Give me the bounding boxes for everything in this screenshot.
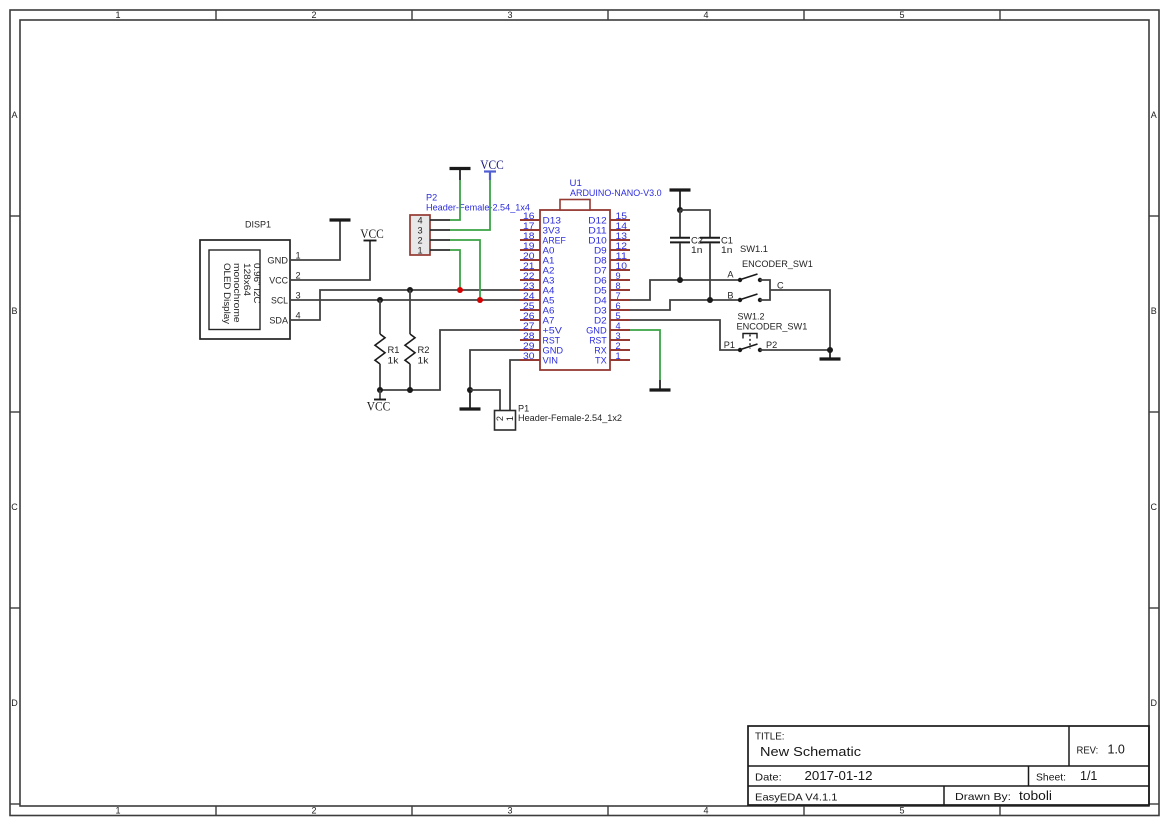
svg-text:A6: A6 bbox=[543, 305, 555, 315]
svg-text:U1: U1 bbox=[570, 178, 582, 188]
svg-text:3: 3 bbox=[616, 331, 621, 341]
svg-text:TX: TX bbox=[595, 355, 607, 365]
U1 labels bbox=[570, 178, 662, 198]
svg-text:GND: GND bbox=[267, 255, 288, 265]
svg-text:22: 22 bbox=[523, 271, 535, 281]
node SDA junction (red) bbox=[457, 287, 463, 293]
svg-text:D4: D4 bbox=[594, 295, 607, 305]
wire U1 GND pin29 bbox=[470, 350, 520, 390]
svg-text:2: 2 bbox=[495, 416, 505, 421]
svg-text:17: 17 bbox=[523, 221, 535, 231]
svg-text:A0: A0 bbox=[543, 245, 555, 255]
svg-text:1: 1 bbox=[115, 806, 120, 816]
svg-text:RST: RST bbox=[543, 335, 561, 345]
svg-text:P2: P2 bbox=[426, 193, 437, 203]
svg-text:Drawn By:: Drawn By: bbox=[955, 791, 1011, 803]
svg-text:13: 13 bbox=[616, 231, 628, 241]
wire U1 GND pin4 to ground (green) bbox=[630, 330, 660, 380]
node label C bbox=[777, 280, 784, 290]
svg-text:RX: RX bbox=[594, 345, 606, 355]
svg-text:1k: 1k bbox=[418, 356, 429, 366]
svg-text:21: 21 bbox=[523, 261, 535, 271]
svg-text:15: 15 bbox=[616, 211, 628, 221]
svg-text:SDA: SDA bbox=[269, 315, 288, 325]
svg-text:New Schematic: New Schematic bbox=[760, 744, 862, 759]
svg-text:C: C bbox=[1151, 502, 1158, 512]
svg-text:4: 4 bbox=[296, 311, 301, 321]
svg-text:ENCODER_SW1: ENCODER_SW1 bbox=[742, 259, 813, 269]
svg-text:29: 29 bbox=[523, 341, 535, 351]
svg-text:D10: D10 bbox=[588, 235, 606, 245]
C1 value labels bbox=[721, 236, 733, 255]
pin label P2 bbox=[766, 340, 777, 350]
IC U1 ARDUINO-NANO-V3.0 bbox=[520, 200, 630, 371]
wire U1 D3 pin6 to encoder B bbox=[630, 300, 739, 310]
svg-text:D: D bbox=[1151, 698, 1158, 708]
svg-text:D6: D6 bbox=[594, 275, 607, 285]
svg-text:1: 1 bbox=[505, 416, 515, 421]
svg-text:TITLE:: TITLE: bbox=[755, 731, 785, 743]
svg-text:20: 20 bbox=[523, 251, 535, 261]
svg-text:AREF: AREF bbox=[543, 235, 567, 245]
node junction R2/VCC bbox=[407, 387, 413, 393]
wire top to C1 bbox=[680, 210, 710, 237]
svg-text:D9: D9 bbox=[594, 245, 607, 255]
capacitor C2 bbox=[670, 210, 690, 280]
ground (near P1) bbox=[460, 390, 481, 409]
svg-text:D3: D3 bbox=[594, 305, 607, 315]
svg-text:D12: D12 bbox=[588, 215, 606, 225]
svg-text:REV:: REV: bbox=[1077, 745, 1099, 757]
node junction C2/C1 top bbox=[677, 207, 683, 213]
svg-text:R2: R2 bbox=[418, 345, 430, 355]
node junction SDA/R2 bbox=[407, 287, 413, 293]
svg-text:2017-01-12: 2017-01-12 bbox=[805, 769, 873, 783]
SW1.2 labels bbox=[737, 312, 808, 332]
svg-text:C: C bbox=[11, 502, 18, 512]
svg-text:6: 6 bbox=[616, 301, 621, 311]
R2 value labels bbox=[418, 345, 430, 366]
svg-text:EasyEDA V4.1.1: EasyEDA V4.1.1 bbox=[755, 792, 838, 804]
wire encoder common C bbox=[760, 280, 830, 350]
R1 value labels bbox=[388, 345, 400, 366]
resistor R2 bbox=[405, 290, 415, 390]
svg-text:ENCODER_SW1: ENCODER_SW1 bbox=[737, 322, 808, 332]
title block bbox=[748, 726, 1149, 805]
svg-text:2: 2 bbox=[417, 235, 422, 245]
svg-text:SW1.1: SW1.1 bbox=[740, 244, 768, 254]
svg-text:1: 1 bbox=[417, 245, 422, 255]
svg-text:27: 27 bbox=[523, 321, 535, 331]
svg-text:D8: D8 bbox=[594, 255, 607, 265]
svg-text:D7: D7 bbox=[594, 265, 607, 275]
connector P2 Header-Female-2.54_1x4 bbox=[410, 215, 450, 255]
wire SCL net: DISP1 pin3 to U1 A5 bbox=[290, 299, 520, 301]
svg-text:7: 7 bbox=[616, 291, 621, 301]
switch SW1.1 section B bbox=[738, 294, 762, 302]
svg-text:B: B bbox=[11, 306, 17, 316]
wire U1 D2 pin5 to SW1.2 P1 bbox=[630, 320, 739, 350]
svg-text:2: 2 bbox=[311, 10, 316, 20]
svg-text:8: 8 bbox=[616, 281, 621, 291]
svg-text:GND: GND bbox=[586, 325, 607, 335]
svg-text:VIN: VIN bbox=[543, 355, 559, 365]
svg-text:5: 5 bbox=[616, 311, 621, 321]
svg-text:P1: P1 bbox=[518, 404, 529, 414]
svg-text:A: A bbox=[727, 270, 734, 280]
svg-text:2: 2 bbox=[296, 271, 301, 281]
svg-text:A: A bbox=[1151, 110, 1157, 120]
node SCL junction (red) bbox=[477, 297, 483, 303]
ground (P2 pin4) bbox=[450, 169, 471, 181]
svg-text:4: 4 bbox=[703, 10, 708, 20]
svg-text:1/1: 1/1 bbox=[1080, 769, 1097, 783]
P1 labels bbox=[518, 404, 622, 424]
OLED display DISP1 bbox=[200, 240, 301, 339]
switch SW1.2 ENCODER_SW1 (push button) bbox=[738, 334, 762, 353]
wire P2 pin2 to SCL (green) bbox=[450, 240, 480, 300]
wire junction to P1 pin2 bbox=[470, 390, 500, 411]
svg-text:monochrome: monochrome bbox=[232, 263, 242, 323]
svg-text:GND: GND bbox=[543, 345, 564, 355]
svg-text:Sheet:: Sheet: bbox=[1036, 772, 1066, 784]
svg-text:D5: D5 bbox=[594, 285, 607, 295]
svg-text:RST: RST bbox=[589, 335, 607, 345]
svg-text:1n: 1n bbox=[691, 245, 702, 255]
svg-text:toboli: toboli bbox=[1019, 789, 1052, 803]
svg-text:A: A bbox=[11, 110, 17, 120]
node junction C1/B bbox=[707, 297, 713, 303]
svg-text:A5: A5 bbox=[543, 295, 555, 305]
node junction C2/A bbox=[677, 277, 683, 283]
power VCC (below R1) bbox=[367, 390, 391, 414]
svg-text:1.0: 1.0 bbox=[1108, 743, 1125, 757]
svg-text:16: 16 bbox=[523, 211, 535, 221]
node junction SCL/R1 bbox=[377, 297, 383, 303]
svg-text:1: 1 bbox=[296, 251, 301, 261]
wire SDA net: DISP1 pin4 to U1 A4 bbox=[290, 290, 520, 320]
pin label P1 bbox=[724, 340, 735, 350]
C2 value labels bbox=[691, 236, 703, 255]
svg-text:Header-Female-2.54_1x4: Header-Female-2.54_1x4 bbox=[426, 202, 530, 212]
svg-text:VCC: VCC bbox=[367, 400, 391, 414]
svg-text:B: B bbox=[727, 291, 733, 301]
svg-text:30: 30 bbox=[523, 351, 535, 361]
svg-text:2: 2 bbox=[616, 341, 621, 351]
svg-text:24: 24 bbox=[523, 291, 535, 301]
svg-text:D: D bbox=[11, 698, 18, 708]
svg-text:12: 12 bbox=[616, 241, 628, 251]
svg-text:1k: 1k bbox=[388, 356, 399, 366]
P2 labels bbox=[426, 193, 530, 213]
svg-text:3V3: 3V3 bbox=[543, 225, 561, 235]
svg-text:10: 10 bbox=[616, 261, 628, 271]
power VCC (DISP1) bbox=[360, 227, 384, 241]
svg-text:+5V: +5V bbox=[543, 325, 563, 335]
wire P2 pin1 to SDA (green) bbox=[450, 250, 460, 290]
svg-text:Date:: Date: bbox=[755, 772, 782, 784]
svg-text:18: 18 bbox=[523, 231, 535, 241]
svg-text:128x64: 128x64 bbox=[242, 263, 252, 296]
svg-text:Header-Female-2.54_1x2: Header-Female-2.54_1x2 bbox=[518, 413, 622, 423]
node label B bbox=[727, 291, 733, 301]
svg-text:5: 5 bbox=[899, 806, 904, 816]
ground (DISP1) bbox=[330, 220, 351, 222]
svg-text:D13: D13 bbox=[543, 215, 561, 225]
svg-text:9: 9 bbox=[616, 271, 621, 281]
svg-text:A2: A2 bbox=[543, 265, 555, 275]
wire DISP1 VCC pin2 to VCC bbox=[290, 241, 370, 280]
svg-text:11: 11 bbox=[616, 251, 628, 261]
node junction C/P2 bbox=[827, 347, 833, 353]
svg-text:28: 28 bbox=[523, 331, 535, 341]
svg-text:0.96" I2C: 0.96" I2C bbox=[252, 263, 262, 304]
svg-text:23: 23 bbox=[523, 281, 535, 291]
svg-text:A7: A7 bbox=[543, 315, 555, 325]
svg-text:3: 3 bbox=[417, 225, 422, 235]
svg-text:26: 26 bbox=[523, 311, 535, 321]
svg-text:D2: D2 bbox=[594, 315, 607, 325]
node label A bbox=[727, 270, 734, 280]
svg-text:1n: 1n bbox=[721, 245, 732, 255]
wire SW1.2 P2 to ground bbox=[760, 349, 830, 351]
svg-text:4: 4 bbox=[703, 806, 708, 816]
svg-text:1: 1 bbox=[616, 351, 621, 361]
capacitor C1 bbox=[700, 238, 720, 300]
resistor R1 bbox=[375, 300, 385, 390]
svg-text:3: 3 bbox=[296, 291, 301, 301]
svg-text:14: 14 bbox=[616, 221, 628, 231]
wire P2 pin4 to ground (green) bbox=[450, 180, 460, 220]
svg-text:5: 5 bbox=[899, 10, 904, 20]
svg-text:P2: P2 bbox=[766, 340, 777, 350]
ground (SW1 common) bbox=[820, 350, 841, 360]
svg-text:VCC: VCC bbox=[360, 227, 384, 241]
wire P2 pin3 to VCC (green) bbox=[450, 180, 490, 230]
svg-text:R1: R1 bbox=[388, 345, 400, 355]
svg-text:D11: D11 bbox=[588, 225, 606, 235]
svg-text:25: 25 bbox=[523, 301, 535, 311]
svg-text:C: C bbox=[777, 280, 784, 290]
SW1.1 labels bbox=[740, 244, 813, 269]
power VCC netlabel (blue, P2 pin3) bbox=[480, 158, 504, 180]
svg-text:VCC: VCC bbox=[480, 158, 504, 172]
ground (U1 GND pin4) bbox=[650, 380, 671, 390]
svg-text:VCC: VCC bbox=[269, 275, 288, 285]
svg-text:ARDUINO-NANO-V3.0: ARDUINO-NANO-V3.0 bbox=[570, 188, 662, 198]
svg-text:19: 19 bbox=[523, 241, 535, 251]
svg-text:4: 4 bbox=[417, 215, 422, 225]
svg-text:P1: P1 bbox=[724, 340, 735, 350]
svg-text:B: B bbox=[1151, 306, 1157, 316]
svg-text:3: 3 bbox=[507, 10, 512, 20]
svg-text:SCL: SCL bbox=[271, 295, 288, 305]
wire VCC rail under resistors to U1 +5V bbox=[380, 330, 520, 390]
DISP1 label bbox=[245, 220, 271, 230]
svg-text:1: 1 bbox=[115, 10, 120, 20]
switch SW1.1 ENCODER_SW1 section A bbox=[738, 274, 762, 282]
node junction R1/VCC bbox=[377, 387, 383, 393]
wire DISP1 GND pin1 to ground bbox=[290, 221, 340, 260]
node junction GND/P1 bbox=[467, 387, 473, 393]
svg-text:SW1.2: SW1.2 bbox=[738, 312, 765, 322]
connector P1 Header-Female-2.54_1x2 bbox=[495, 411, 516, 431]
svg-text:2: 2 bbox=[311, 806, 316, 816]
svg-text:A3: A3 bbox=[543, 275, 555, 285]
svg-text:OLED Display: OLED Display bbox=[222, 263, 232, 324]
svg-text:A4: A4 bbox=[543, 285, 555, 295]
wire U1 VIN pin30 to P1 pin1 bbox=[510, 360, 520, 411]
ground (top of C1/C2) bbox=[670, 190, 691, 210]
wire U1 D4 pin7 to encoder A bbox=[630, 280, 739, 300]
svg-text:3: 3 bbox=[507, 806, 512, 816]
svg-text:4: 4 bbox=[616, 321, 621, 331]
svg-text:A1: A1 bbox=[543, 255, 555, 265]
svg-text:DISP1: DISP1 bbox=[245, 220, 271, 230]
